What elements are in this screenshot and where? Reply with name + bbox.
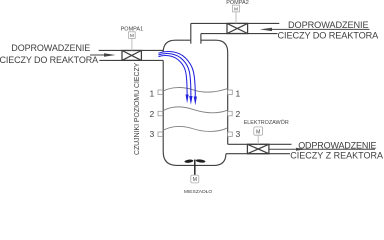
svg-text:ELEKTROZAWÓR: ELEKTROZAWÓR <box>244 119 289 126</box>
svg-text:CIECZY Z REAKTORA: CIECZY Z REAKTORA <box>290 151 383 161</box>
svg-text:3: 3 <box>236 129 241 139</box>
level sensor square L2 <box>158 111 163 116</box>
flow stream curve inner <box>158 55 187 95</box>
motor box M2 <box>233 5 240 23</box>
mixer blade right <box>196 159 206 163</box>
valve V3 ELEKTROZAWOR body <box>247 144 269 153</box>
motor box M3 <box>254 127 263 144</box>
svg-text:DOPROWADZENIE: DOPROWADZENIE <box>11 43 90 53</box>
svg-text:MIESZADŁO: MIESZADŁO <box>184 189 212 193</box>
svg-text:M: M <box>256 129 260 135</box>
arrow inflow right <box>272 28 370 30</box>
wire pipe1 top line <box>99 49 164 51</box>
svg-text:DOPROWADZENIE: DOPROWADZENIE <box>288 20 369 30</box>
flow stream curve middle <box>158 54 191 97</box>
mixer shaft <box>194 160 196 176</box>
motor box M1 <box>129 32 136 51</box>
wire outlet bottom line <box>226 153 290 155</box>
valve V1 (pump POMPA1 body) <box>122 51 141 61</box>
svg-text:1: 1 <box>236 89 241 99</box>
flow arrowhead outer <box>194 97 197 106</box>
level sensor square R3 <box>228 132 233 137</box>
flow arrowhead inner <box>186 95 189 104</box>
wire outlet top line <box>228 143 292 145</box>
arrow inflow left <box>90 54 106 56</box>
wire pipe2 horizontal bottom <box>201 33 278 35</box>
flow arrowhead middle <box>189 96 192 105</box>
svg-text:ODPROWADZENIE: ODPROWADZENIE <box>298 140 376 150</box>
svg-text:M: M <box>234 6 238 11</box>
mixer blade left <box>184 159 193 163</box>
level sensor square L1 <box>158 90 163 95</box>
valve V2 (pump POMPA2 body) <box>227 23 248 33</box>
svg-text:M: M <box>130 33 134 38</box>
svg-text:2: 2 <box>149 109 154 119</box>
svg-text:CZUJNIKI POZIOMU CIECZY: CZUJNIKI POZIOMU CIECZY <box>134 62 141 155</box>
liquid level wave 1 <box>163 88 227 93</box>
tank T1 outline <box>163 60 226 165</box>
svg-text:M: M <box>193 177 197 183</box>
level sensor square R2 <box>228 111 233 116</box>
wire pipe2 vertical left <box>190 23 192 43</box>
svg-text:CIECZY DO REAKTORA: CIECZY DO REAKTORA <box>0 55 98 65</box>
flow stream curve outer <box>158 51 195 97</box>
wire pipe1 bottom line <box>99 59 163 61</box>
level sensor square R1 <box>228 90 233 95</box>
motor box M4 <box>191 175 199 183</box>
svg-text:CIECZY DO REAKTORA: CIECZY DO REAKTORA <box>278 30 380 40</box>
svg-text:1: 1 <box>149 89 154 99</box>
svg-text:POMPA1: POMPA1 <box>121 27 144 33</box>
level sensor square L3 <box>158 132 163 137</box>
svg-text:2: 2 <box>236 109 241 119</box>
tank T1 top <box>163 40 228 144</box>
svg-text:3: 3 <box>149 129 154 139</box>
arrow outflow right <box>269 148 375 150</box>
svg-text:POMPA2: POMPA2 <box>226 0 249 6</box>
wire pipe2 vertical right <box>200 34 202 44</box>
liquid level wave 2 <box>163 107 227 113</box>
wire pipe2 horizontal top <box>191 22 279 24</box>
liquid level wave 3 <box>163 127 227 132</box>
